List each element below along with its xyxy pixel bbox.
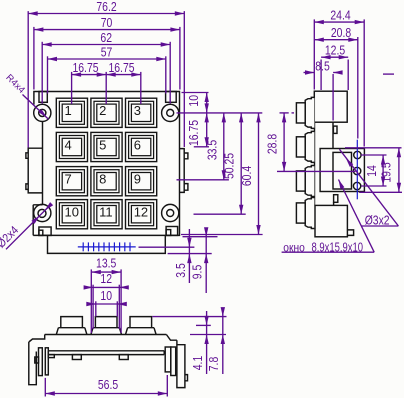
front view top-right mounting ear	[162, 104, 179, 121]
button 8	[91, 167, 122, 196]
svg-text:56.5: 56.5	[98, 378, 118, 392]
side view bottom foot	[347, 230, 353, 236]
side view bump 2	[305, 131, 314, 162]
bottom view band tab 1	[72, 355, 81, 360]
button 11	[91, 200, 122, 229]
dimension 9.5	[183, 236, 218, 238]
bottom view left hook bar	[39, 348, 43, 376]
button 10	[56, 200, 87, 229]
bottom view right bar 2	[171, 347, 176, 376]
side view hole circle 3	[353, 182, 360, 189]
bottom view pcb band	[48, 351, 164, 355]
dimension 56.5	[44, 378, 46, 397]
svg-text:12: 12	[134, 205, 148, 220]
button 5	[91, 132, 122, 161]
connector pin row centerline blue	[78, 246, 136, 248]
label R4x4 with leader	[23, 95, 49, 120]
right tab nub upper	[184, 153, 188, 159]
button 2	[91, 98, 122, 127]
svg-text:57: 57	[101, 45, 113, 59]
svg-text:5: 5	[99, 137, 106, 152]
front view left side tab	[28, 148, 42, 193]
bottom view top plate	[45, 334, 167, 336]
front view top-right ear hole	[167, 109, 174, 116]
label diameter 3x2 leader	[339, 149, 398, 226]
side view bump 4	[305, 198, 314, 229]
front view bottom-left mounting ear	[34, 204, 51, 221]
front view top-right ear notch	[166, 92, 177, 103]
button 3	[126, 98, 157, 127]
dimension 7.8	[152, 316, 226, 318]
svg-text:12: 12	[100, 272, 112, 286]
bottom view left end step	[29, 335, 45, 343]
long extension line at ear hole row	[177, 112, 263, 114]
svg-text:50.25: 50.25	[223, 153, 237, 179]
side view bump 3	[305, 166, 314, 197]
svg-text:1: 1	[65, 103, 72, 118]
button 9	[126, 167, 157, 196]
bottom view band tab 2	[119, 355, 128, 360]
dimension 57	[47, 56, 49, 93]
vertical dimension 50.25	[194, 213, 246, 215]
svg-text:19.5: 19.5	[380, 162, 394, 182]
svg-text:70: 70	[101, 16, 113, 30]
front view bottom-right ear hole	[167, 210, 174, 217]
svg-text:9.5: 9.5	[190, 265, 204, 280]
front view top-left ear notch	[39, 92, 47, 103]
svg-text:33.5: 33.5	[205, 140, 219, 160]
svg-text:62: 62	[100, 31, 112, 45]
button 4	[56, 132, 87, 161]
svg-text:76.2: 76.2	[96, 0, 116, 14]
bottom view cap 3	[130, 317, 152, 328]
svg-text:3: 3	[134, 103, 141, 118]
dimension 70	[33, 27, 35, 90]
front view bottom-right notch	[166, 227, 178, 236]
front view bottom-left ear hole d2x4	[38, 209, 46, 217]
right-side vertical dimension 10	[182, 92, 209, 94]
label d2x4 with leader	[6, 205, 50, 249]
label okno window leader	[339, 180, 375, 253]
button 12	[126, 200, 157, 229]
dimension 76.2 overall width	[27, 11, 29, 147]
dimension 62 ear hole span	[41, 42, 43, 104]
button 1	[56, 98, 87, 127]
dimension 10 outside arrows	[95, 301, 97, 316]
bottom view cap 1	[61, 317, 83, 328]
front view bottom-left notch	[39, 227, 51, 235]
button 6	[126, 132, 157, 161]
left tab nub lower	[26, 184, 28, 190]
bottom view right hook outer	[177, 340, 185, 387]
dimension 16.75 button pitch x2	[71, 72, 73, 104]
dimension 14 hole span	[361, 154, 387, 156]
svg-text:13.5: 13.5	[96, 256, 116, 270]
side view blue centerline	[356, 140, 358, 200]
side view head section	[314, 91, 347, 122]
right tab nub lower	[184, 184, 188, 191]
side view rear housing	[320, 149, 364, 192]
ext stub at 28.8 dim	[280, 112, 289, 114]
svg-text:16.75: 16.75	[72, 61, 98, 75]
bottom view cap 2	[95, 317, 117, 328]
svg-text:4: 4	[65, 137, 72, 152]
svg-text:60.4: 60.4	[240, 166, 254, 186]
connector pins blue ticks	[82, 242, 84, 251]
button 7	[56, 167, 87, 196]
vertical dimension 28.8	[277, 170, 356, 172]
svg-text:Ø3x2: Ø3x2	[365, 214, 390, 228]
vertical dimension 33.5	[177, 179, 229, 181]
side view hole circle 1	[354, 151, 361, 158]
svg-text:9: 9	[134, 172, 141, 187]
svg-text:4.1: 4.1	[191, 356, 205, 371]
svg-text:7: 7	[65, 172, 72, 187]
front view top-left mounting ear R4x4	[34, 104, 51, 121]
svg-text:8.5: 8.5	[315, 60, 330, 74]
svg-text:16.75: 16.75	[187, 120, 201, 146]
bottom view band left step	[48, 355, 54, 358]
dimension 19.5	[345, 147, 402, 149]
dimension 4.1	[196, 324, 211, 326]
left tab nub upper	[26, 153, 28, 159]
svg-text:6: 6	[134, 137, 141, 152]
svg-text:10: 10	[100, 289, 112, 303]
bottom view right end step	[166, 335, 177, 341]
bottom view left bar 2	[45, 348, 48, 375]
stray extension segment right	[383, 73, 394, 75]
svg-text:14: 14	[365, 165, 379, 177]
front view bottom connector strip	[48, 235, 166, 253]
bottom view left hook nub	[35, 357, 39, 363]
svg-text:16.75: 16.75	[108, 61, 134, 75]
dimension 3.5 pin offset	[139, 246, 195, 248]
dimension 8.5 outside arrows	[332, 74, 334, 121]
vertical dimension 60.4	[181, 234, 263, 236]
side view small latch below	[334, 195, 338, 203]
side view latch stem	[333, 202, 335, 205]
svg-text:8: 8	[99, 172, 106, 187]
dimension 20.8	[357, 37, 359, 139]
side view body left edge	[314, 122, 316, 206]
bottom view right end plate	[165, 347, 171, 372]
svg-text:10: 10	[187, 95, 201, 107]
front view top-left ear hole	[39, 109, 46, 116]
svg-text:20.8: 20.8	[331, 26, 351, 40]
front view bottom-right mounting ear	[162, 204, 179, 221]
dimension 12.5	[320, 60, 322, 91]
dimension 13.5	[90, 269, 92, 333]
svg-text:11: 11	[99, 205, 113, 220]
svg-text:28.8: 28.8	[266, 134, 280, 154]
svg-text:24.4: 24.4	[330, 8, 350, 22]
bottom view left hook outer	[29, 342, 37, 385]
side view bump 1	[305, 97, 314, 128]
side view body right edge upper	[332, 122, 334, 149]
ext stub at side view cap	[292, 112, 295, 114]
side view latch	[333, 126, 337, 133]
svg-text:8.9x15.9x10: 8.9x15.9x10	[312, 240, 364, 254]
svg-text:7.8: 7.8	[207, 357, 221, 372]
svg-text:2: 2	[99, 103, 106, 118]
right-side vertical dimension 16.75	[194, 146, 209, 148]
side view window	[333, 152, 352, 189]
svg-text:10: 10	[65, 205, 79, 220]
dimension 24.4	[313, 19, 315, 89]
svg-text:окно: окно	[283, 242, 305, 254]
svg-text:3.5: 3.5	[174, 263, 188, 278]
bottom view right hook foot	[185, 375, 188, 381]
side view bottom block	[315, 205, 347, 236]
front view right side tab	[180, 149, 185, 193]
front view keypad body outline	[33, 92, 179, 236]
side view hole circle 2	[353, 167, 360, 174]
dimension 12 outside arrows	[92, 285, 94, 329]
svg-text:12.5: 12.5	[325, 43, 345, 57]
